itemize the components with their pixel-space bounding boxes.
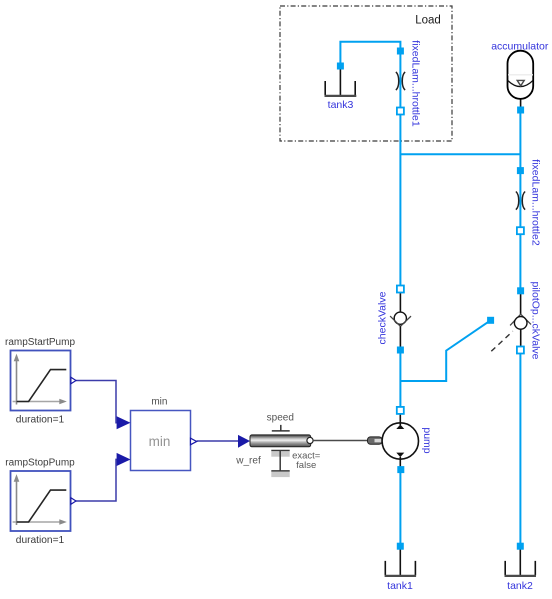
ramp block rampStartPump: [5, 337, 76, 426]
svg-text:tank1: tank1: [387, 580, 413, 592]
svg-text:fixedLam...hrottle1: fixedLam...hrottle1: [409, 40, 421, 127]
signal wire min to speed: [197, 440, 238, 442]
throttle fixedLam...hrottle1: [396, 40, 421, 127]
wire checkValve to pump: [399, 350, 401, 410]
svg-text:false: false: [296, 460, 316, 471]
Load subsystem dash-dot frame: [280, 6, 452, 141]
svg-text:tank2: tank2: [507, 580, 533, 592]
tank2: [505, 543, 537, 592]
wire pump to tank1: [399, 470, 401, 546]
tank1: [385, 543, 417, 592]
svg-text:fixedLam...hrottle2: fixedLam...hrottle2: [529, 159, 541, 246]
speed source: [235, 413, 321, 477]
svg-text:rampStartPump: rampStartPump: [5, 337, 75, 348]
wire accumulator through throttle2 to pilot valve: [519, 110, 521, 291]
checkValve: [377, 286, 412, 354]
signal wire ramp1 to min: [76, 381, 117, 423]
svg-text:pump: pump: [421, 427, 433, 453]
accumulator: [491, 41, 549, 114]
signal wire ramp2 to min: [76, 459, 117, 501]
svg-text:tank3: tank3: [328, 99, 354, 111]
svg-text:min: min: [149, 434, 171, 449]
pump: [382, 407, 433, 473]
svg-text:min: min: [151, 397, 167, 408]
svg-text:duration=1: duration=1: [16, 535, 65, 546]
tank3: [325, 63, 357, 111]
wire pilot signal: [400, 320, 490, 381]
wire main left line (throttle1 to checkValve): [399, 51, 401, 289]
svg-text:rampStopPump: rampStopPump: [5, 458, 75, 469]
svg-text:checkValve: checkValve: [377, 291, 389, 344]
ramp block rampStopPump: [5, 458, 76, 547]
svg-text:pilotOp...ckValve: pilotOp...ckValve: [530, 281, 542, 359]
throttle fixedLam...hrottle2: [516, 159, 541, 246]
svg-text:w_ref: w_ref: [235, 456, 261, 467]
min block: [117, 397, 197, 471]
svg-text:Load: Load: [415, 15, 441, 27]
shaft speed to pump: [313, 437, 382, 444]
svg-text:accumulator: accumulator: [491, 41, 549, 53]
wire pilot valve to tank2: [519, 350, 521, 546]
svg-text:duration=1: duration=1: [16, 415, 65, 426]
pilotOp...ckValve: [487, 281, 541, 359]
wire junction horizontal: [400, 153, 520, 155]
svg-text:speed: speed: [267, 413, 294, 424]
wire tank3 to throttle1: [340, 42, 400, 66]
